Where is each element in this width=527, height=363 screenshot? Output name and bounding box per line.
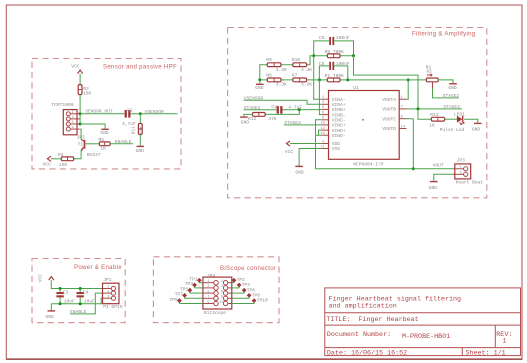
svg-text:GND: GND [255,85,264,91]
svg-text:82: 82 [426,69,432,75]
svg-text:1: 1 [107,286,109,290]
trimmer R2 82 [426,64,439,88]
wire ENABLE net (power) [70,293,103,315]
wire T1 emitter to R4 [74,150,81,159]
svg-text:150: 150 [59,162,68,168]
svg-text:R6: R6 [266,73,272,79]
svg-text:C1: C1 [127,107,133,113]
wire VCC rail to JP1 pin1 [51,280,102,288]
svg-text:14: 14 [401,125,405,129]
svg-text:GND: GND [241,119,250,125]
svg-text:VSENSOR: VSENSOR [244,96,264,102]
svg-text:7: 7 [401,106,403,110]
resistor R4 150 [58,152,74,168]
wire vertical A to pin2 [314,56,322,99]
svg-text:TP7: TP7 [175,292,184,298]
svg-text:ENABLE: ENABLE [70,309,87,315]
node junction C3 bottom [59,302,62,305]
svg-text:GND: GND [100,130,109,136]
svg-text:10: 10 [219,301,223,305]
svg-text:VOUT: VOUT [433,163,444,169]
node junction feedback B left [318,78,321,81]
testpoint TP9 [170,297,203,304]
capacitor C4 10uF [77,289,96,305]
svg-text:3.3K: 3.3K [301,81,312,87]
frame bottom emphasis [6,358,522,360]
wire R9 R10 row [260,56,314,80]
svg-text:TP2: TP2 [237,277,246,283]
svg-text:ENABLE: ENABLE [115,139,132,145]
biscope section dashed box [153,257,279,323]
wire C5 feedback loop left [319,66,329,80]
wire VOUTB STAGE3 net [407,104,463,110]
supply VCC (U1) [285,141,294,155]
svg-text:and amplification: and amplification [329,303,397,311]
node junction C4 top [79,287,82,290]
svg-text:TCRT1000: TCRT1000 [51,102,73,108]
svg-text:100nF: 100nF [336,35,350,41]
svg-text:3.3K: 3.3K [301,67,312,73]
wire R8 row [314,55,354,57]
svg-text:VOUTD: VOUTD [382,126,396,132]
svg-text:3: 3 [207,285,209,289]
testpoint TP1 [189,277,202,283]
filtering section dashed box [228,28,487,198]
ground (below R11) [136,146,145,154]
capacitor C2 4.7uF [271,104,302,114]
connector JP4 BitScope [203,273,232,316]
svg-text:10: 10 [321,122,325,126]
resistor R12 47K [248,112,277,122]
svg-text:STAGE2: STAGE2 [443,93,460,99]
svg-text:R11: R11 [130,126,136,135]
svg-text:GND: GND [46,314,55,320]
wire A right to VOUTB column [354,56,419,109]
svg-text:C2: C2 [271,104,277,110]
ground (R6 row) [255,80,264,91]
svg-text:Filtering & Amplifying: Filtering & Amplifying [412,31,476,38]
svg-text:LED1: LED1 [454,112,465,118]
svg-text:TP6: TP6 [247,287,256,293]
wire R13 to LED1 [445,118,457,120]
wire C6 feedback loop right [334,41,353,56]
svg-text:1K: 1K [429,123,435,129]
svg-text:7: 7 [207,296,209,300]
svg-text:2: 2 [221,280,223,284]
svg-text:R4: R4 [58,152,64,158]
wire node to R11 [139,114,141,124]
node junction C3 top [59,287,62,290]
svg-text:4: 4 [221,285,223,289]
connector JP3 Heart Beat [453,158,484,186]
node junction VSENSOR [139,112,142,115]
svg-text:C5: C5 [319,61,325,67]
svg-text:VSENSOR: VSENSOR [145,109,165,115]
svg-text:Power & Enable: Power & Enable [74,264,122,271]
ground (R12) [240,117,249,125]
svg-text:TP8: TP8 [252,293,261,299]
testpoint TP2 [232,277,246,283]
svg-text:9: 9 [207,301,209,305]
svg-text:VIND+: VIND+ [332,128,346,134]
resistor R3 10K [78,85,92,97]
node junction JP2 pin3 [79,123,82,126]
sensor section dashed box [32,59,181,169]
node junction at JP2 pin1 [79,112,82,115]
svg-text:GND: GND [136,148,145,154]
wire VOUTA to R2 row [407,80,409,99]
svg-text:SENSOR_OUT: SENSOR_OUT [85,109,113,115]
capacitor C6 100nF [319,35,350,45]
svg-text:R5: R5 [99,137,105,143]
wire VOUT net to JP3 [413,163,455,169]
testpoint TP5 [180,286,203,293]
svg-text:BC547: BC547 [87,152,101,158]
svg-text:1: 1 [460,166,462,170]
svg-text:TP3: TP3 [185,281,194,287]
wire SENSOR_OUT net [80,109,125,115]
wire VSENSOR net (filter) [244,96,322,105]
wire ground rail to JP1 pin3 [51,298,102,304]
resistor R10 3.3K [292,57,312,73]
svg-text:Document Number:: Document Number: [327,331,391,339]
wire T1 base to R5 [85,143,99,145]
resistor R1 700K [325,73,345,82]
svg-text:VINA-: VINA- [332,97,346,103]
resistor R9 3.3K [266,57,287,73]
svg-text:VINC-: VINC- [332,118,346,124]
svg-text:R12: R12 [248,116,257,122]
svg-text:VINC+: VINC+ [332,123,346,129]
wire C1 to VSENSOR node [131,113,141,115]
svg-text:1: 1 [207,280,209,284]
ground (U1 VSS) [295,166,304,175]
supply VCC (sensor top) [71,63,82,73]
wire VCC to R3 [79,74,81,85]
svg-text:3.3K: 3.3K [276,67,287,73]
svg-text:VCC: VCC [285,149,294,155]
wire ENABLE net (sensor) [110,139,133,145]
svg-text:R9: R9 [266,57,272,63]
node junction feedback B right [346,78,349,81]
capacitor C3 10uF [56,289,75,305]
testpoint TP6 [232,287,256,293]
wire JP2 pin4 to T1 collector [80,129,81,139]
wire R2 to ground [438,80,453,84]
wire VSS pin11 to ground [299,149,322,167]
wire pins 12 13 tie [316,130,322,135]
capacitor C1 4,7uF [122,107,136,127]
wire pin9 to bottom rail [316,120,413,169]
svg-text:10K: 10K [83,90,92,96]
svg-text:2: 2 [107,290,109,294]
svg-text:PI GPIO: PI GPIO [103,304,123,310]
diode LED1 Pulse Led [440,112,466,134]
svg-text:TP10: TP10 [257,298,268,304]
testpoint TP10 [232,298,268,304]
svg-text:3: 3 [107,295,109,299]
svg-text:R8 700K: R8 700K [325,49,345,55]
svg-text:VCC: VCC [43,162,52,168]
svg-text:6: 6 [322,111,324,115]
node junction C2 out [298,108,301,111]
svg-text:6: 6 [221,290,223,294]
wire C6 feedback loop left [314,41,330,56]
node junction VOUTB [417,107,420,110]
svg-text:1: 1 [72,111,74,115]
svg-text:MCP6004-I/P: MCP6004-I/P [353,161,384,167]
svg-text:TP9: TP9 [170,297,179,303]
svg-text:C6: C6 [319,35,325,41]
resistor R13 1K [429,112,444,129]
svg-text:VINA+: VINA+ [332,102,346,108]
resistor R6 3.3K [266,73,287,88]
svg-text:TITLE: Finger Hearbeat: TITLE: Finger Hearbeat [326,316,418,324]
svg-text:5: 5 [322,106,324,110]
wire STAGE3 net (filter left) [284,120,322,126]
wire R6 R7 row [260,79,320,81]
svg-text:C4: C4 [83,290,89,296]
transistor T1 BC547 [78,139,101,158]
svg-text:T1: T1 [78,141,84,147]
node junction VOUTA row [407,78,410,81]
resistor R5 1K [99,137,111,151]
svg-text:8: 8 [401,116,403,120]
svg-text:Heart Beat: Heart Beat [456,180,484,186]
svg-text:1: 1 [503,338,507,346]
wire rail to ground [50,304,52,311]
wire STAGE2 net (filter left) [244,105,277,111]
svg-text:VOUTA: VOUTA [382,97,396,103]
svg-text:C3: C3 [63,290,69,296]
ground (JP3) [429,182,438,191]
svg-text:VCC: VCC [38,274,44,283]
svg-text:GND: GND [448,85,457,91]
svg-text:JP1: JP1 [103,277,112,283]
svg-text:8: 8 [221,296,223,300]
svg-text:STAGE3: STAGE3 [443,104,460,110]
node junction feedback A left [312,54,315,57]
wire VCC to VDD pin4 [290,143,322,145]
svg-text:Sheet: 1/1: Sheet: 1/1 [466,349,506,357]
node junction C4 bottom [79,302,82,305]
svg-text:BitScope: BitScope [204,310,226,316]
resistor R8 700K [325,49,345,58]
svg-text:VOUTC: VOUTC [382,116,396,122]
wire LED1 to ground [464,119,478,123]
svg-text:Pulse Led: Pulse Led [440,127,465,133]
ground (power) [46,311,56,320]
op-amp U1 MCP6004-I/P [321,85,407,168]
wire VOUTC down [407,119,414,169]
testpoint TP4 [232,282,250,288]
svg-text:3.3K: 3.3K [276,81,287,87]
svg-text:GND: GND [429,185,438,191]
svg-text:3: 3 [322,101,324,105]
wire C2 node down to R12 [265,110,299,115]
svg-text:VSS: VSS [332,146,341,152]
svg-text:R7: R7 [292,73,298,79]
supply VCC (power) [38,274,54,283]
node junction feedback A right [352,54,355,57]
svg-text:JP3: JP3 [457,158,466,164]
wire R3 to node SENSOR_OUT [79,95,81,114]
node junction R6 left [258,78,261,81]
connector JP2 TCRT1000 [51,102,85,140]
svg-text:TP4: TP4 [242,282,251,288]
capacitor C5 100nF [319,61,350,70]
svg-text:STAGE3: STAGE3 [284,120,301,126]
svg-text:R1 700K: R1 700K [325,73,345,79]
svg-text:GND: GND [295,170,304,176]
ground (JP2) [100,129,109,136]
wire R11 to ground [139,135,141,147]
svg-text:TP5: TP5 [180,286,189,292]
svg-text:VOUTB: VOUTB [382,107,396,113]
wire pin3 to ground [80,124,105,129]
wire STAGE2 net (trimmer wiper) [433,88,460,99]
svg-text:47K: 47K [139,126,145,135]
svg-text:47K: 47K [268,116,277,122]
testpoint TP3 [185,281,203,288]
node junction VOUT rail [412,167,415,170]
svg-text:Date: 16/06/15 16:52: Date: 16/06/15 16:52 [327,349,407,357]
svg-text:GND: GND [472,126,481,132]
wire R1 row [319,79,347,81]
power section dashed box [32,259,125,323]
wire VOUTB node to R13 [418,109,431,119]
svg-text:VIND-: VIND- [332,133,346,139]
svg-text:BiScope connector: BiScope connector [220,265,276,272]
ground (R2) [448,84,457,91]
supply VCC (sensor bottom left) [43,156,52,168]
connector JP1 PI GPIO [103,277,123,310]
wire JP3 pin2 to ground [434,174,453,181]
resistor R7 3.3K [292,73,312,88]
svg-text:Sensor and passive HPF: Sensor and passive HPF [103,64,177,71]
wire VSENSOR net [140,109,177,115]
wire C2 to pin5 [283,109,322,111]
svg-text:VCC: VCC [71,63,80,69]
svg-text:4: 4 [322,140,324,144]
svg-text:R10: R10 [292,57,301,63]
svg-text:3: 3 [72,121,74,125]
wire JP2 pin1 to pin3 vertical [79,114,81,124]
svg-text:STAGE2: STAGE2 [244,105,261,111]
svg-text:4: 4 [72,126,74,130]
testpoint TP8 [232,293,261,299]
svg-text:M-PROBE-HB01: M-PROBE-HB01 [402,333,450,341]
testpoint TP7 [175,292,203,299]
svg-text:VINB-: VINB- [332,112,346,118]
wire R4 to VCC arrow [51,158,61,160]
resistor R11 47K [130,124,144,135]
wire vertical B to pin6 [319,80,321,115]
svg-text:9: 9 [322,117,324,121]
svg-text:R13: R13 [430,112,439,118]
wire R1 row to R2 [348,79,427,81]
svg-text:1: 1 [401,96,403,100]
svg-text:2: 2 [460,172,462,176]
svg-text:VINB+: VINB+ [332,107,346,113]
svg-text:1K: 1K [100,146,106,152]
svg-text:2: 2 [322,96,324,100]
svg-text:2: 2 [72,116,74,120]
svg-text:5: 5 [207,290,209,294]
title block frame [325,288,521,356]
wire C5 feedback loop right [334,66,348,80]
ground (LED1) [472,123,482,132]
wire R12 to ground [244,114,253,116]
